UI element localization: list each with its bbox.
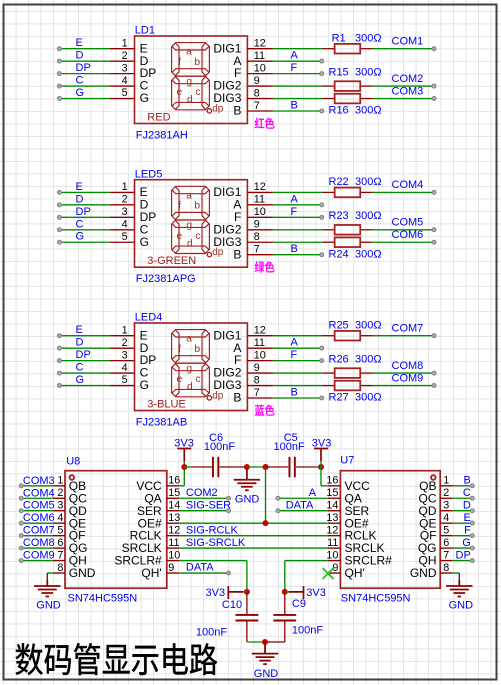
LD1 pin 7 (247, 110, 273, 112)
node DP endpoint (57, 215, 61, 219)
svg-text:F: F (291, 62, 298, 74)
svg-text:11: 11 (168, 537, 179, 549)
svg-text:A: A (291, 50, 299, 62)
U8 pin 15 (167, 497, 180, 499)
LD1 pin 2 (110, 60, 135, 62)
node DATA endpoint (276, 509, 280, 513)
node COM4 endpoint (432, 190, 436, 194)
svg-text:1: 1 (122, 37, 128, 49)
wire net D from U7 pin 3 (453, 510, 473, 512)
svg-text:11: 11 (254, 50, 265, 62)
wire net C to LED5 pin 4 (59, 229, 109, 231)
wire C6 to GND stem (219, 466, 247, 468)
node E endpoint (57, 47, 61, 51)
svg-text:E: E (76, 181, 83, 193)
wire net B from LED4 pin 7 (273, 397, 322, 399)
junction (263, 520, 269, 526)
svg-text:COM9: COM9 (23, 550, 55, 562)
U8 pin 1 (53, 485, 65, 487)
wire LED5 pin 9 to R23 (273, 229, 323, 231)
U8 pin-1 marker (70, 475, 75, 480)
wire U8 SRCLR# to C10/3V3 (179, 560, 247, 562)
node COM9 endpoint (432, 384, 436, 388)
LED5 pin 8 (247, 241, 273, 243)
seven-segment display LED4 (135, 323, 248, 411)
svg-text:b: b (194, 57, 200, 68)
svg-text:14: 14 (326, 500, 338, 512)
svg-text:B: B (291, 243, 298, 255)
node COM6 endpoint (432, 240, 436, 244)
svg-text:COM5: COM5 (23, 500, 55, 512)
node F endpoint (320, 359, 324, 363)
svg-text:DP: DP (456, 549, 471, 561)
svg-text:R26: R26 (329, 353, 349, 365)
svg-text:12: 12 (254, 38, 266, 50)
node COM1 endpoint (432, 47, 436, 51)
svg-text:U7: U7 (340, 455, 354, 467)
wire LED5 pin 8 to R24 (273, 241, 323, 243)
wire net COM9 to U8 pin 7 (21, 560, 53, 562)
svg-text:6: 6 (57, 537, 63, 549)
svg-text:300Ω: 300Ω (355, 176, 382, 188)
resistor R23 300R (322, 229, 334, 231)
wire net COM8 to U8 pin 6 (21, 547, 53, 549)
resistor R16 300R (322, 98, 334, 100)
svg-text:LD1: LD1 (135, 25, 155, 37)
wire R23 to COM5 (372, 229, 434, 231)
wire net G to LED5 pin 5 (59, 241, 109, 243)
wire R15 to COM2 (372, 85, 434, 87)
U8 pin 2 (53, 497, 65, 499)
svg-text:B: B (463, 475, 470, 487)
node G endpoint (57, 240, 61, 244)
wire net D to LD1 pin 2 (59, 60, 109, 62)
no-connect flag U7 QH' (323, 568, 334, 579)
resistor R15 300R (322, 85, 334, 87)
node C endpoint (470, 496, 474, 500)
svg-text:D: D (76, 50, 84, 62)
svg-text:9: 9 (168, 562, 174, 574)
node A endpoint (320, 59, 324, 63)
LED4 pin 7 (247, 397, 273, 399)
U7 pin 6 (440, 547, 453, 549)
U8 pin 14 (167, 510, 180, 512)
svg-text:C: C (463, 487, 471, 499)
svg-text:COM6: COM6 (392, 229, 424, 241)
svg-text:B: B (291, 100, 298, 112)
wire C10 to ground junction (247, 641, 265, 643)
node COM4 endpoint (19, 496, 23, 500)
svg-text:5: 5 (122, 374, 128, 386)
LED4 pin 4 (110, 372, 135, 374)
LD1 pin 10 (247, 73, 273, 75)
U7 pin 14 (328, 510, 341, 512)
svg-text:B: B (233, 391, 241, 405)
wire net E to LD1 pin 1 (59, 48, 109, 50)
wire net COM2 from U8 QA (179, 497, 228, 499)
svg-text:4: 4 (443, 512, 449, 524)
svg-text:f: f (178, 344, 181, 355)
svg-text:3: 3 (443, 500, 449, 512)
svg-text:1: 1 (57, 475, 63, 487)
svg-text:9: 9 (254, 75, 260, 87)
svg-text:COM3: COM3 (392, 85, 424, 97)
U8 pin 6 (53, 547, 65, 549)
LED5 pin 4 (110, 229, 135, 231)
svg-text:8: 8 (254, 87, 260, 99)
LED5 pin 3 (110, 216, 135, 218)
svg-text:COM4: COM4 (392, 179, 424, 191)
svg-text:11: 11 (327, 537, 338, 549)
LD1 pin 5 (110, 98, 135, 100)
wire net D to LED5 pin 2 (59, 204, 109, 206)
label 红色 (255, 118, 275, 129)
svg-text:GND: GND (254, 668, 278, 680)
svg-text:DATA: DATA (286, 499, 314, 511)
svg-text:7: 7 (254, 387, 260, 399)
svg-text:E: E (76, 37, 83, 49)
svg-text:8: 8 (254, 231, 260, 243)
U7 pin-1 marker (431, 475, 436, 480)
svg-text:e: e (177, 87, 183, 98)
node DP endpoint (470, 559, 474, 563)
svg-text:C: C (76, 218, 84, 230)
U7 pin 9 (328, 572, 341, 574)
svg-text:13: 13 (168, 512, 180, 524)
wire net SIG-SRCLK (U8 SRCLK to U7 SRCLK) (179, 547, 328, 549)
wire LD1 pin 12 to R1 (273, 48, 323, 50)
wire net C to LD1 pin 4 (59, 85, 109, 87)
node COM8 endpoint (19, 546, 23, 550)
svg-text:12: 12 (254, 181, 266, 193)
svg-text:D: D (463, 499, 471, 511)
svg-text:COM2: COM2 (186, 487, 218, 499)
svg-text:2: 2 (122, 337, 128, 349)
junction (181, 464, 187, 470)
svg-text:B: B (291, 387, 298, 399)
svg-text:f: f (178, 201, 181, 212)
svg-text:COM8: COM8 (23, 537, 55, 549)
ground (rail) (234, 467, 260, 490)
U8 pin 7 (53, 560, 65, 562)
LED5 pin 1 (110, 191, 135, 193)
svg-text:COM8: COM8 (392, 360, 424, 372)
node A endpoint (320, 346, 324, 350)
svg-text:8: 8 (254, 374, 260, 386)
svg-text:7: 7 (254, 100, 260, 112)
node COM6 endpoint (19, 521, 23, 525)
U8 pin 11 (167, 547, 180, 549)
LED5 pin 7 (247, 254, 273, 256)
svg-text:a: a (186, 190, 192, 201)
svg-text:D: D (76, 337, 84, 349)
wire net SIG-RCLK (U8 RCLK to U7 RCLK) (179, 535, 328, 537)
svg-text:a: a (186, 334, 192, 345)
resistor R24 300R (322, 241, 334, 243)
LED5 pin 2 (110, 204, 135, 206)
svg-text:FJ2381APG: FJ2381APG (136, 273, 196, 285)
LED4 pin 3 (110, 360, 135, 362)
U7 pin 16 (328, 485, 341, 487)
LED4 pin 10 (247, 360, 273, 362)
svg-text:G: G (462, 537, 471, 549)
svg-text:100nF: 100nF (274, 441, 305, 453)
wire R1 to COM1 (372, 48, 434, 50)
svg-text:R16: R16 (329, 105, 349, 117)
wire junction down to OE# row (265, 467, 267, 523)
svg-text:6: 6 (443, 537, 449, 549)
node COM3 endpoint (432, 97, 436, 101)
svg-text:d: d (187, 95, 193, 106)
wire R26 to COM8 (372, 372, 434, 374)
resistor R26 300R (322, 372, 334, 374)
wire net G to LED4 pin 5 (59, 385, 109, 387)
wire net B from U7 pin 1 (453, 485, 473, 487)
svg-text:SN74HC595N: SN74HC595N (68, 592, 138, 604)
svg-text:300Ω: 300Ω (355, 210, 382, 222)
U7 pin 15 (328, 497, 341, 499)
svg-text:100nF: 100nF (292, 625, 323, 637)
wire U7 SRCLR# to C9/3V3 (285, 560, 328, 562)
node COM2 endpoint (227, 496, 231, 500)
U7 pin 7 (440, 560, 453, 562)
U7 pin 3 (440, 510, 453, 512)
wire R22 to COM4 (372, 191, 434, 193)
svg-text:G: G (140, 235, 149, 249)
node B endpoint (470, 484, 474, 488)
junction (263, 464, 269, 470)
svg-text:11: 11 (254, 194, 265, 206)
shift register U7 SN74HC595N (340, 471, 440, 589)
svg-text:C10: C10 (222, 599, 242, 611)
svg-text:10: 10 (254, 206, 266, 218)
svg-text:10: 10 (254, 349, 266, 361)
wire LD1 pin 8 to R16 (273, 98, 323, 100)
svg-text:3: 3 (122, 62, 128, 74)
svg-text:3V3: 3V3 (306, 587, 326, 599)
svg-text:G: G (76, 87, 85, 99)
seven-segment display LD1 (135, 36, 248, 124)
svg-text:3: 3 (57, 500, 63, 512)
wire net G to LD1 pin 5 (59, 98, 109, 100)
node F endpoint (320, 72, 324, 76)
LED5 pin 9 (247, 229, 273, 231)
svg-text:300Ω: 300Ω (355, 392, 382, 404)
node E endpoint (57, 334, 61, 338)
node COM8 endpoint (432, 371, 436, 375)
svg-text:RED: RED (147, 111, 170, 123)
svg-text:c: c (195, 87, 200, 98)
svg-text:R23: R23 (329, 210, 349, 222)
svg-text:12: 12 (168, 524, 180, 536)
node D endpoint (57, 203, 61, 207)
wire 3V3 rail to C6 (184, 466, 192, 468)
svg-text:E: E (76, 324, 83, 336)
wire net A from LED4 pin 11 (273, 347, 322, 349)
svg-text:dp: dp (212, 103, 224, 114)
seven-segment display LED5 (135, 180, 248, 268)
U8 pin 13 (167, 522, 180, 524)
svg-text:3V3: 3V3 (206, 587, 226, 599)
svg-text:12: 12 (326, 524, 338, 536)
svg-text:e: e (177, 231, 183, 242)
power flag 3V3 (C9) (288, 586, 303, 599)
svg-text:10: 10 (168, 549, 180, 561)
junction (262, 639, 268, 645)
wire net COM4 to U8 pin 2 (21, 497, 53, 499)
node D endpoint (470, 509, 474, 513)
wire R24 to COM6 (372, 241, 434, 243)
wire net E from U7 pin 4 (453, 522, 473, 524)
wire net COM7 to U8 pin 5 (21, 535, 53, 537)
node B endpoint (320, 396, 324, 400)
svg-text:dp: dp (212, 247, 224, 258)
wire LED4 pin 9 to R26 (273, 372, 323, 374)
wire net COM5 to U8 pin 3 (21, 510, 53, 512)
node E endpoint (470, 521, 474, 525)
svg-text:FJ2381AH: FJ2381AH (136, 129, 188, 141)
svg-text:2: 2 (122, 50, 128, 62)
node C endpoint (57, 228, 61, 232)
svg-text:SIG-SRCLK: SIG-SRCLK (186, 537, 246, 549)
svg-text:COM1: COM1 (392, 36, 424, 48)
LED4 pin 2 (110, 347, 135, 349)
node A endpoint (320, 203, 324, 207)
svg-text:3V3: 3V3 (312, 437, 332, 449)
node A endpoint (276, 496, 280, 500)
wire net DATA from U8 QH' (179, 572, 228, 574)
svg-text:5: 5 (443, 524, 449, 536)
svg-text:1: 1 (443, 475, 449, 487)
LED4 pin 11 (247, 347, 273, 349)
svg-text:SIG-RCLK: SIG-RCLK (186, 524, 239, 536)
svg-text:16: 16 (326, 475, 338, 487)
node DP endpoint (57, 359, 61, 363)
wire net DP to LED4 pin 3 (59, 360, 109, 362)
svg-text:R1: R1 (332, 33, 346, 45)
svg-text:e: e (177, 374, 183, 385)
svg-text:4: 4 (122, 218, 128, 230)
svg-text:300Ω: 300Ω (355, 33, 382, 45)
svg-text:g: g (186, 77, 192, 88)
svg-text:5: 5 (122, 87, 128, 99)
wire net A from LED5 pin 11 (273, 204, 322, 206)
svg-text:3: 3 (122, 206, 128, 218)
wire net B from LED5 pin 7 (273, 254, 322, 256)
ground (U8) (34, 580, 60, 597)
svg-text:COM4: COM4 (23, 487, 55, 499)
svg-text:3-BLUE: 3-BLUE (147, 398, 186, 410)
svg-text:3-GREEN: 3-GREEN (147, 255, 196, 267)
LED5 pin 12 (247, 191, 273, 193)
svg-text:FJ2381AB: FJ2381AB (136, 416, 187, 428)
svg-text:SIG-SER: SIG-SER (186, 499, 231, 511)
LED4 pin 9 (247, 372, 273, 374)
power flag 3V3 (right) (314, 449, 328, 462)
junction (244, 464, 250, 470)
capacitor C9 100nF (284, 592, 286, 615)
node COM5 endpoint (19, 509, 23, 513)
wire net F from LD1 pin 10 (273, 73, 322, 75)
svg-text:4: 4 (122, 75, 128, 87)
ground (bottom center) (252, 642, 278, 664)
svg-text:7: 7 (57, 549, 63, 561)
resistor R27 300R (322, 385, 334, 387)
svg-text:g: g (186, 364, 192, 375)
wire LD1 pin 9 to R15 (273, 85, 323, 87)
U7 pin 2 (440, 497, 453, 499)
svg-text:3: 3 (122, 349, 128, 361)
svg-text:7: 7 (254, 244, 260, 256)
wire net COM3 to U8 pin 1 (21, 485, 53, 487)
svg-text:LED5: LED5 (135, 168, 163, 180)
svg-text:SN74HC595N: SN74HC595N (341, 592, 411, 604)
LD1 pin 3 (110, 73, 135, 75)
node D endpoint (57, 346, 61, 350)
svg-text:R27: R27 (329, 392, 349, 404)
U8 pin 5 (53, 535, 65, 537)
node DP endpoint (57, 72, 61, 76)
svg-text:A: A (309, 487, 317, 499)
svg-text:b: b (194, 201, 200, 212)
node COM7 endpoint (432, 334, 436, 338)
svg-text:9: 9 (254, 362, 260, 374)
LED4 pin 1 (110, 335, 135, 337)
svg-text:GND: GND (69, 566, 96, 580)
svg-text:G: G (140, 91, 149, 105)
svg-text:5: 5 (122, 231, 128, 243)
wire R16 to COM3 (372, 98, 434, 100)
svg-text:2: 2 (443, 487, 449, 499)
svg-text:DP: DP (76, 206, 91, 218)
U7 pin 1 (440, 485, 453, 487)
svg-text:7: 7 (443, 549, 449, 561)
node B endpoint (320, 253, 324, 257)
node G endpoint (470, 546, 474, 550)
svg-text:GND: GND (235, 494, 260, 506)
junction (244, 589, 250, 595)
LED4 pin 12 (247, 335, 273, 337)
capacitor C10 100nF (246, 592, 248, 615)
LD1 pin 12 (247, 48, 273, 50)
power flag 3V3 (C10) (228, 586, 243, 599)
svg-text:QH': QH' (345, 566, 365, 580)
node DATA endpoint (227, 571, 231, 575)
svg-text:12: 12 (254, 325, 266, 337)
U8 pin 9 (167, 572, 180, 574)
node G endpoint (57, 384, 61, 388)
wire net E to LED5 pin 1 (59, 191, 109, 193)
svg-text:d: d (187, 382, 193, 393)
wire net F from LED5 pin 10 (273, 216, 322, 218)
svg-text:R24: R24 (329, 248, 349, 260)
U7 pin 12 (328, 535, 341, 537)
U8 pin 3 (53, 510, 65, 512)
svg-text:COM7: COM7 (392, 323, 424, 335)
svg-text:10: 10 (326, 549, 338, 561)
svg-text:1: 1 (122, 181, 128, 193)
svg-text:DP: DP (76, 349, 91, 361)
svg-text:QH': QH' (141, 566, 161, 580)
svg-text:2: 2 (122, 194, 128, 206)
svg-text:300Ω: 300Ω (355, 353, 382, 365)
U7 pin 13 (328, 522, 341, 524)
svg-text:E: E (463, 512, 470, 524)
wire GND stem to junction (247, 466, 266, 468)
svg-text:100nF: 100nF (196, 627, 227, 639)
wire U8 OE# to U7 OE# (179, 522, 328, 524)
svg-text:16: 16 (168, 475, 180, 487)
